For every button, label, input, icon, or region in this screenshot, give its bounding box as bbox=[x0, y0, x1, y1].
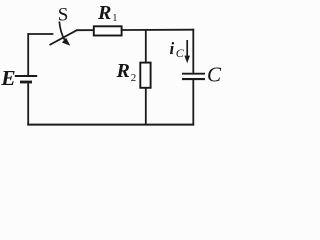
svg-text:1: 1 bbox=[112, 13, 117, 24]
switch S blade bbox=[50, 30, 78, 45]
svg-text:E: E bbox=[0, 66, 15, 90]
svg-text:S: S bbox=[58, 5, 69, 26]
wire middle branch upper bbox=[145, 30, 147, 63]
wire top-right horizontal bbox=[77, 29, 195, 32]
svg-text:C: C bbox=[207, 63, 222, 87]
wire left vertical upper bbox=[27, 33, 29, 75]
battery E short plate bbox=[20, 81, 32, 84]
battery E long plate bbox=[15, 75, 37, 77]
svg-text:R: R bbox=[97, 2, 111, 24]
resistor R2 box bbox=[140, 63, 150, 88]
capacitor C top plate bbox=[182, 73, 205, 75]
switch S closing arrow shaft bbox=[59, 22, 64, 40]
svg-text:C: C bbox=[176, 46, 185, 60]
wire bottom horizontal bbox=[27, 124, 194, 126]
wire right vertical lower bbox=[192, 79, 194, 124]
svg-text:R: R bbox=[116, 60, 130, 82]
current iC arrowhead bbox=[184, 56, 190, 64]
wire left vertical lower bbox=[27, 83, 29, 125]
wire middle branch lower bbox=[145, 88, 147, 125]
svg-text:2: 2 bbox=[131, 72, 137, 84]
wire right vertical upper bbox=[192, 29, 194, 73]
capacitor C bottom plate bbox=[182, 78, 205, 80]
switch S closing arrowhead bbox=[62, 38, 70, 46]
svg-text:i: i bbox=[170, 39, 175, 58]
wire top-left horizontal bbox=[28, 33, 54, 35]
resistor R1 box bbox=[94, 26, 122, 35]
current iC arrow shaft bbox=[186, 40, 188, 57]
